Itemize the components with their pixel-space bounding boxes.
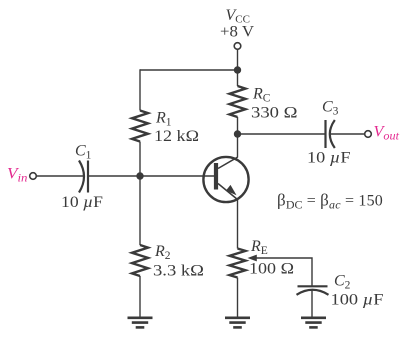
wire R2 bottom lead	[139, 276, 141, 317]
svg-text:C1: C1	[75, 143, 92, 162]
svg-text:12 kΩ: 12 kΩ	[154, 128, 199, 145]
wire base (C1 to transistor base)	[88, 175, 214, 177]
svg-text:100 Ω: 100 Ω	[249, 261, 294, 278]
resistor RC	[230, 86, 246, 117]
node dot: Vcc rail	[234, 66, 241, 73]
wire RE bottom lead	[237, 278, 239, 317]
wire RC bottom lead	[237, 117, 239, 134]
svg-text:RE: RE	[250, 238, 268, 257]
wire collector vertical	[237, 134, 239, 158]
ground (RE)	[225, 318, 250, 328]
svg-text:R1: R1	[155, 110, 172, 129]
resistor R1	[132, 111, 148, 142]
svg-text:100 µF: 100 µF	[331, 292, 384, 309]
svg-text:RC: RC	[252, 86, 271, 105]
svg-text:R2: R2	[154, 243, 171, 262]
resistor RE	[230, 249, 246, 278]
terminal Vout	[365, 131, 372, 138]
node dot: collector/output	[234, 130, 241, 137]
ground (C2)	[301, 318, 326, 328]
svg-text:10 µF: 10 µF	[61, 194, 103, 211]
transistor Q1	[203, 157, 248, 202]
terminal Vin	[30, 173, 37, 180]
svg-text:Vout: Vout	[374, 124, 400, 143]
svg-text:C2: C2	[334, 273, 351, 292]
svg-text:+8 V: +8 V	[220, 24, 255, 41]
wire R1 top lead	[139, 69, 141, 110]
wire top rail	[140, 69, 238, 71]
wire Vcc lead	[237, 49, 239, 70]
svg-text:βDC = βac = 150: βDC = βac = 150	[277, 191, 383, 212]
capacitor C1	[79, 161, 88, 193]
wire output (node to C3)	[238, 133, 326, 135]
wire C3 to Vout terminal	[330, 133, 365, 135]
capacitor C2	[297, 286, 329, 295]
svg-text:Vin: Vin	[7, 166, 28, 185]
svg-text:10 µF: 10 µF	[307, 150, 351, 167]
wire C2 bottom lead	[311, 291, 313, 317]
capacitor C3	[326, 120, 335, 148]
terminal Vcc	[234, 43, 241, 50]
svg-text:C3: C3	[322, 99, 339, 118]
wire emitter vertical	[237, 200, 239, 249]
wire R2 branch down	[139, 176, 141, 245]
svg-text:3.3 kΩ: 3.3 kΩ	[153, 263, 204, 280]
node dot: base/R1/R2	[136, 172, 143, 179]
wire input left (Vin to C1)	[36, 175, 83, 177]
resistor R2	[132, 245, 148, 276]
arrowhead RE tap	[248, 255, 257, 262]
wire RC top lead	[237, 70, 239, 86]
ground (R2)	[128, 318, 153, 328]
wire RE tap to C2	[251, 258, 312, 286]
svg-text:330 Ω: 330 Ω	[251, 105, 298, 122]
wire R1 bottom lead	[139, 142, 141, 177]
